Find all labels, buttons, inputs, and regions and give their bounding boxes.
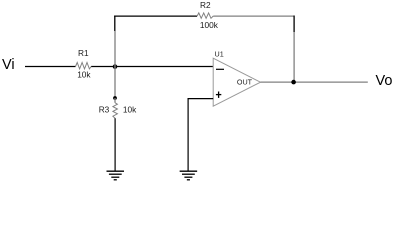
wire bbox=[91, 66, 213, 68]
svg-text:R1: R1 bbox=[78, 48, 89, 58]
wire bbox=[114, 15, 197, 17]
svg-text:10k: 10k bbox=[123, 105, 137, 115]
wire bbox=[187, 98, 189, 171]
svg-text:10k: 10k bbox=[77, 69, 91, 79]
resistor R1 bbox=[76, 48, 92, 79]
resistor R2 bbox=[197, 0, 219, 30]
wire bbox=[114, 31, 116, 67]
svg-text:U1: U1 bbox=[215, 50, 224, 59]
svg-text:Vi: Vi bbox=[2, 57, 15, 73]
ground bbox=[180, 171, 198, 180]
svg-text:R3: R3 bbox=[99, 105, 110, 115]
ground bbox=[107, 171, 125, 180]
svg-text:R2: R2 bbox=[200, 0, 211, 10]
wire bbox=[261, 81, 368, 83]
wire bbox=[25, 66, 76, 68]
wire bbox=[114, 118, 116, 171]
resistor R3 bbox=[99, 98, 137, 118]
wire bbox=[213, 15, 294, 17]
svg-text:Vo: Vo bbox=[376, 73, 393, 89]
wire bbox=[114, 67, 116, 99]
wire bbox=[114, 16, 116, 32]
wire bbox=[293, 32, 295, 82]
junction bbox=[291, 80, 296, 85]
op-amp U1 bbox=[213, 50, 260, 107]
junction bbox=[113, 96, 117, 100]
wire bbox=[293, 16, 295, 33]
wire bbox=[188, 98, 213, 100]
junction bbox=[113, 64, 118, 69]
svg-text:OUT: OUT bbox=[237, 78, 253, 87]
svg-text:100k: 100k bbox=[200, 20, 219, 30]
